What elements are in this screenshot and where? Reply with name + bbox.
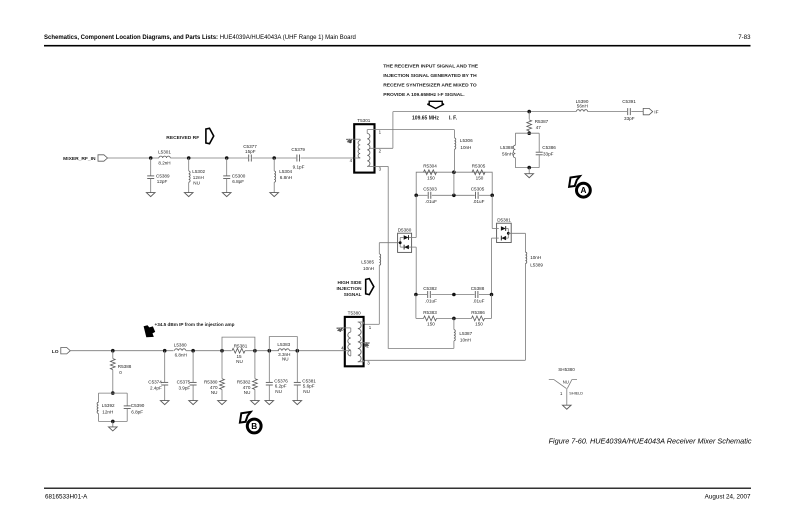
svg-text:August 24, 2007: August 24, 2007	[705, 494, 751, 501]
svg-text:R5382: R5382	[237, 380, 251, 385]
svg-text:C5386: C5386	[542, 145, 556, 150]
svg-text:C5300: C5300	[232, 173, 246, 178]
svg-text:L5389: L5389	[530, 263, 543, 268]
svg-text:2.4pF: 2.4pF	[150, 386, 162, 391]
svg-text:L5392: L5392	[102, 403, 115, 408]
svg-text:6.8pF: 6.8pF	[232, 179, 244, 184]
svg-text:NU: NU	[244, 390, 251, 395]
svg-text:C5391: C5391	[622, 99, 636, 104]
svg-text:C5381: C5381	[302, 378, 316, 383]
svg-text:R5304: R5304	[423, 164, 437, 169]
svg-text:L5304: L5304	[279, 169, 292, 174]
svg-text:15pF: 15pF	[245, 149, 256, 154]
svg-text:6.2pF: 6.2pF	[275, 384, 287, 389]
svg-text:R5386: R5386	[471, 310, 485, 315]
svg-text:56nH: 56nH	[577, 104, 588, 109]
svg-text:R5387: R5387	[535, 119, 549, 124]
svg-text:SH5380: SH5380	[558, 367, 575, 372]
svg-text:C5388: C5388	[471, 286, 485, 291]
svg-text:R5383: R5383	[423, 310, 437, 315]
svg-text:6.8nH: 6.8nH	[280, 175, 292, 180]
svg-text:.01uF: .01uF	[425, 199, 437, 204]
svg-text:Schematics, Component Location: Schematics, Component Location Diagrams,…	[44, 35, 356, 41]
svg-text:C5375: C5375	[177, 380, 191, 385]
svg-text:NU: NU	[563, 380, 569, 385]
svg-text:12nH: 12nH	[102, 410, 113, 415]
svg-text:3.9pF: 3.9pF	[178, 386, 190, 391]
svg-text:PROVIDE A 109.65MHz I-F SIGNAL: PROVIDE A 109.65MHz I-F SIGNAL.	[383, 92, 465, 98]
svg-text:C5374: C5374	[148, 380, 162, 385]
svg-text:Figure 7-60. HUE4039A/HUE4043A: Figure 7-60. HUE4039A/HUE4043A Receiver …	[549, 437, 752, 446]
svg-text:47: 47	[536, 125, 542, 130]
svg-text:109.65 MHz: 109.65 MHz	[412, 116, 439, 122]
svg-text:RECEIVED RF: RECEIVED RF	[166, 135, 199, 141]
svg-text:L5306: L5306	[460, 138, 473, 143]
svg-text:RECEIVE SYNTHESIZER ARE MIXED: RECEIVE SYNTHESIZER ARE MIXED TO	[383, 82, 477, 88]
svg-text:R5381: R5381	[234, 344, 248, 349]
svg-text:L5388: L5388	[500, 145, 513, 150]
svg-text:33pF: 33pF	[543, 151, 554, 156]
svg-text:C5389: C5389	[156, 173, 170, 178]
svg-text:NU: NU	[193, 181, 200, 186]
svg-text:.01uF: .01uF	[473, 298, 485, 303]
svg-text:8.2nH: 8.2nH	[158, 161, 170, 166]
svg-text:INJECTION: INJECTION	[336, 286, 362, 291]
svg-text:150: 150	[427, 322, 435, 327]
svg-text:INJECTION SIGNAL GENERATED BY: INJECTION SIGNAL GENERATED BY TH	[383, 73, 477, 79]
svg-text:10nH: 10nH	[530, 255, 541, 260]
svg-text:150: 150	[476, 175, 484, 180]
svg-text:L5385: L5385	[361, 259, 374, 264]
svg-text:150: 150	[475, 322, 483, 327]
svg-text:A: A	[580, 186, 586, 195]
svg-text:150: 150	[427, 175, 435, 180]
svg-text:B: B	[251, 422, 257, 431]
svg-text:NU: NU	[211, 390, 218, 395]
svg-text:SIGNAL: SIGNAL	[344, 292, 362, 297]
svg-text:+34.5 dBm IP from the injectio: +34.5 dBm IP from the injection amp	[155, 322, 235, 327]
svg-text:5.6pF: 5.6pF	[303, 384, 315, 389]
svg-text:THE RECEIVER INPUT SIGNAL AND: THE RECEIVER INPUT SIGNAL AND THE	[383, 64, 479, 70]
svg-text:10nH: 10nH	[363, 266, 374, 271]
svg-text:NU: NU	[236, 359, 243, 364]
svg-text:SHIELD: SHIELD	[569, 391, 583, 395]
svg-text:.01uF: .01uF	[425, 298, 437, 303]
svg-text:R5305: R5305	[472, 164, 486, 169]
svg-text:MIXER_RF_IN: MIXER_RF_IN	[63, 156, 96, 162]
svg-text:33pF: 33pF	[624, 116, 635, 121]
svg-text:R5388: R5388	[118, 364, 132, 369]
svg-text:L5302: L5302	[192, 169, 205, 174]
svg-text:6.8pF: 6.8pF	[131, 410, 143, 415]
svg-text:L5301: L5301	[158, 150, 171, 155]
svg-text:C5376: C5376	[274, 378, 288, 383]
svg-text:NU: NU	[303, 389, 310, 394]
svg-text:C5382: C5382	[423, 286, 437, 291]
svg-text:10nH: 10nH	[460, 145, 471, 150]
svg-text:R5380: R5380	[204, 380, 218, 385]
svg-text:LO: LO	[52, 349, 59, 355]
svg-text:9.1pF: 9.1pF	[293, 164, 305, 169]
svg-text:NU: NU	[282, 357, 289, 362]
svg-text:C5390: C5390	[131, 403, 145, 408]
svg-text:.01uF: .01uF	[473, 199, 485, 204]
svg-text:0: 0	[119, 370, 122, 375]
svg-text:12nH: 12nH	[193, 175, 204, 180]
svg-text:C5303: C5303	[423, 187, 437, 192]
svg-text:6816533H01-A: 6816533H01-A	[45, 494, 88, 501]
svg-text:L5387: L5387	[459, 331, 472, 336]
svg-text:L5383: L5383	[277, 342, 290, 347]
svg-text:D5381: D5381	[497, 217, 511, 222]
svg-text:IF: IF	[654, 110, 658, 116]
svg-text:6.8nH: 6.8nH	[175, 353, 187, 358]
svg-text:T5380: T5380	[348, 310, 361, 315]
svg-text:D5380: D5380	[398, 227, 412, 232]
svg-text:7-83: 7-83	[738, 34, 751, 41]
svg-text:C5305: C5305	[471, 187, 485, 192]
svg-text:HIGH SIDE: HIGH SIDE	[338, 280, 362, 285]
svg-text:I. F.: I. F.	[449, 116, 458, 122]
svg-text:12pF: 12pF	[157, 179, 168, 184]
svg-text:T5301: T5301	[357, 118, 370, 123]
svg-text:C5379: C5379	[291, 147, 305, 152]
svg-text:56nH: 56nH	[502, 151, 513, 156]
svg-text:L5380: L5380	[174, 343, 187, 348]
svg-text:NU: NU	[275, 389, 282, 394]
svg-text:10nH: 10nH	[460, 337, 471, 342]
